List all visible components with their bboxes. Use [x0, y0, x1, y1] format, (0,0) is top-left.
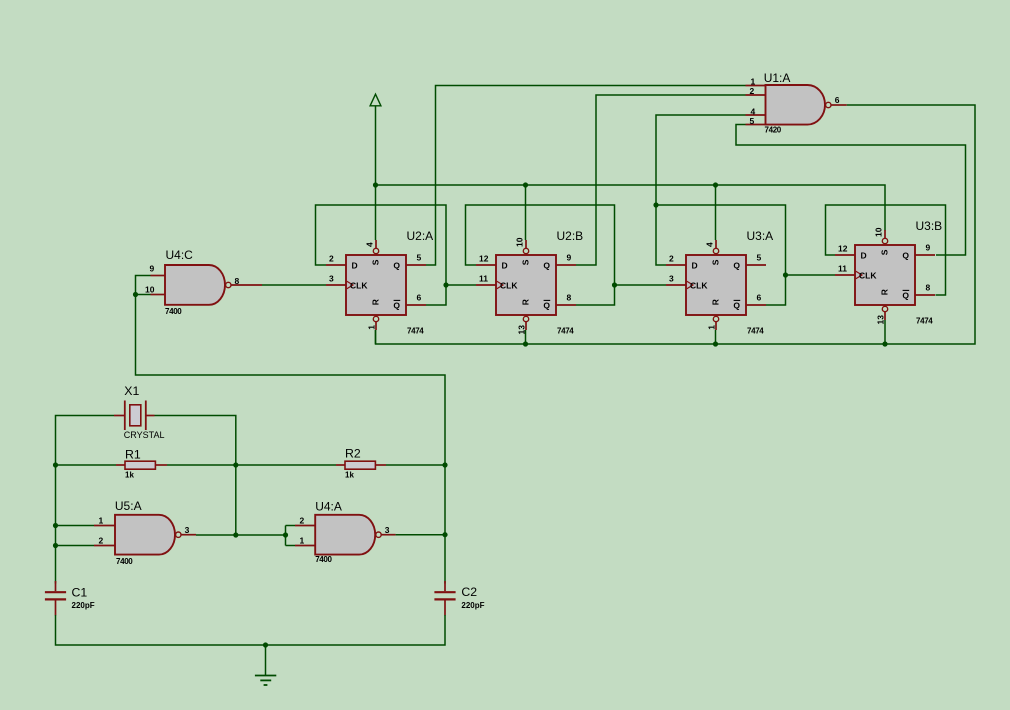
svg-text:7400: 7400: [165, 307, 182, 316]
wire U2:B R pin to reset bus: [525, 330, 527, 344]
svg-text:R: R: [520, 299, 530, 305]
U4:A pin 2 stub: [295, 525, 315, 527]
svg-text:7474: 7474: [916, 317, 933, 326]
svg-text:10: 10: [145, 285, 155, 295]
junction ground stem: [263, 642, 268, 647]
svg-text:R: R: [710, 299, 720, 305]
U1:A pin 2 stub: [746, 94, 766, 96]
wire Q U2:B up to U1:A pin 2: [576, 95, 746, 265]
U2:B Q pin stub: [556, 264, 576, 266]
op 4-input NAND U1:A body: [766, 85, 826, 125]
U2:A D pin stub: [326, 264, 346, 266]
U3:B D pin stub: [835, 254, 855, 256]
U2:A Qbar pin stub: [406, 304, 426, 306]
svg-text:1: 1: [751, 76, 756, 86]
svg-text:Q: Q: [393, 261, 400, 271]
svg-text:4: 4: [705, 242, 715, 247]
junction S bus at U2:A: [373, 182, 378, 187]
power terminal VCC arrow: [370, 94, 381, 106]
wire S preset bus: [376, 185, 886, 231]
svg-text:Q: Q: [902, 291, 909, 301]
svg-text:D: D: [502, 261, 508, 271]
wire osc net1 left rail (X1 left, R1 left, U5:A inputs, C1 top): [56, 416, 115, 584]
svg-text:1k: 1k: [345, 471, 354, 480]
wire D net U3:A up to U1:A pin 4: [656, 115, 746, 265]
svg-text:U5:A: U5:A: [115, 499, 142, 513]
svg-text:X1: X1: [124, 384, 139, 398]
wire osc net2 rail (X1 right, R1 right, U5:A out, U4:A in): [155, 416, 286, 536]
U2:A CLK pin stub: [326, 284, 346, 286]
svg-text:11: 11: [479, 273, 488, 283]
D flip-flop U2:A body: [346, 255, 406, 315]
wire U3:A R pin to reset bus: [715, 330, 717, 344]
U2:B CLK pin stub: [476, 284, 496, 286]
U2:B S preset circle: [523, 248, 528, 253]
wire U2:A R pin to reset bus: [375, 330, 377, 344]
svg-text:R: R: [370, 299, 380, 305]
svg-text:10: 10: [515, 237, 525, 247]
wire U3:B R pin to reset bus: [884, 320, 886, 344]
svg-text:D: D: [352, 261, 358, 271]
wire U4:A output to net3: [396, 534, 445, 536]
svg-text:6: 6: [757, 293, 762, 303]
svg-text:3: 3: [329, 273, 334, 283]
wire S bus drop to U3:A S pin: [715, 185, 717, 240]
svg-text:3: 3: [669, 273, 674, 283]
svg-text:U2:B: U2:B: [557, 229, 584, 243]
U5:A pin 1 stub: [94, 525, 115, 527]
R1 right pin stub: [155, 464, 167, 466]
svg-text:U3:B: U3:B: [916, 219, 943, 233]
C1 top pin stub: [55, 581, 57, 591]
svg-text:D: D: [861, 251, 867, 261]
svg-text:Q: Q: [902, 251, 909, 261]
wire loop Qbar U2:B to D U2:B: [466, 205, 615, 305]
svg-text:2: 2: [99, 536, 104, 546]
U4:C pin 8 output stub: [231, 284, 262, 286]
junction net2 at U5:A output: [233, 532, 238, 537]
svg-text:220pF: 220pF: [72, 601, 95, 610]
U2:A S preset circle: [373, 248, 378, 253]
svg-text:2: 2: [750, 86, 755, 96]
svg-text:R2: R2: [345, 447, 361, 461]
U3:A R pin stub: [715, 322, 717, 330]
svg-text:Q: Q: [393, 301, 400, 311]
U3:B R reset circle: [882, 306, 887, 311]
U3:A R reset circle: [713, 316, 718, 321]
svg-text:1: 1: [707, 325, 717, 330]
svg-text:U2:A: U2:A: [407, 229, 434, 243]
U4:A output bubble: [376, 532, 381, 537]
U1:A pin 1 stub: [746, 85, 766, 87]
svg-text:4: 4: [365, 242, 375, 247]
capacitor C1 body: [45, 592, 66, 599]
svg-text:1: 1: [367, 325, 377, 330]
svg-text:CLK: CLK: [500, 281, 518, 291]
wire U4:C output to U2:A CLK: [262, 284, 326, 286]
svg-text:7474: 7474: [747, 327, 764, 336]
2-input NAND U4:C body: [165, 265, 225, 305]
svg-text:8: 8: [926, 283, 931, 293]
U2:B Qbar pin stub: [556, 304, 576, 306]
U3:A S pin stub: [715, 240, 717, 248]
svg-text:8: 8: [235, 276, 240, 286]
resistor R2 body: [345, 461, 375, 469]
wire R1 right to net2: [167, 464, 236, 466]
svg-text:Q: Q: [733, 261, 740, 271]
svg-text:7420: 7420: [765, 126, 782, 135]
C1 bottom pin stub: [55, 601, 57, 616]
U1:A pin 5 stub: [746, 124, 766, 126]
svg-text:S: S: [879, 249, 889, 255]
C2 top pin stub: [444, 581, 446, 591]
resistor R1 body: [125, 461, 155, 469]
svg-text:7474: 7474: [557, 327, 574, 336]
junction reset bus at U3:B: [882, 341, 887, 346]
junction net1 at R1: [53, 462, 58, 467]
wire net2 to R2 left: [236, 464, 336, 466]
wire net1 to U5:A pin 1: [56, 525, 95, 527]
svg-text:C1: C1: [72, 586, 88, 600]
svg-text:12: 12: [838, 243, 848, 253]
junction reset bus at U3:A: [713, 341, 718, 346]
wire Qbar U3:A to U3:B CLK: [786, 274, 836, 276]
svg-text:C2: C2: [461, 585, 477, 599]
U4:C pin 10 stub: [151, 294, 166, 296]
U3:A CLK pin stub: [666, 284, 686, 286]
U3:A Q pin stub: [746, 264, 766, 266]
svg-text:9: 9: [567, 253, 572, 263]
junction D U3:A loop: [653, 202, 658, 207]
D flip-flop U3:B body: [855, 245, 915, 305]
U3:B S preset circle: [882, 238, 887, 243]
X1 left pin stub: [114, 415, 125, 417]
svg-text:S: S: [520, 259, 530, 265]
wire loop Qbar U2:A to D U2:A: [316, 205, 447, 305]
wire net1 to U5:A pin 2: [56, 545, 95, 547]
wire U5:A output to net2: [196, 534, 236, 536]
X1 right pin stub: [146, 415, 155, 417]
junction reset bus at U2:B: [523, 341, 528, 346]
U1:A pin 6 output stub: [831, 104, 847, 106]
svg-text:CLK: CLK: [690, 281, 708, 291]
U5:A output bubble: [176, 532, 181, 537]
junction net1 at U5:A pin1: [53, 523, 58, 528]
junction U4:A input tie: [283, 532, 288, 537]
junction net3 at R2: [442, 462, 447, 467]
U3:B S pin stub: [884, 230, 886, 238]
R2 right pin stub: [375, 464, 386, 466]
U3:B Qbar pin stub: [915, 294, 935, 296]
U4:C pin 9 stub: [151, 275, 166, 277]
U2:A S pin stub: [375, 240, 377, 248]
svg-text:2: 2: [300, 516, 305, 526]
svg-text:7400: 7400: [116, 557, 133, 566]
svg-text:U1:A: U1:A: [764, 71, 791, 85]
svg-text:D: D: [692, 261, 698, 271]
junction net3 at U4:A output: [442, 532, 447, 537]
R2 left pin stub: [336, 464, 345, 466]
svg-text:3: 3: [385, 525, 390, 535]
svg-text:7474: 7474: [407, 327, 424, 336]
svg-text:R: R: [879, 289, 889, 295]
wire U4:C tied inputs to oscillator output: [136, 276, 446, 466]
svg-text:CRYSTAL: CRYSTAL: [124, 430, 165, 440]
capacitor C2 body: [434, 592, 455, 599]
svg-text:5: 5: [757, 253, 762, 263]
svg-text:U4:A: U4:A: [315, 500, 342, 514]
U3:A D pin stub: [666, 264, 686, 266]
U3:A Qbar pin stub: [746, 304, 766, 306]
wire net1 to R1 left: [56, 464, 117, 466]
svg-text:5: 5: [750, 116, 755, 126]
junction U4:C input tie: [133, 292, 138, 297]
2-input NAND U4:A body: [315, 515, 375, 555]
U2:B R pin stub: [525, 322, 527, 330]
svg-text:U4:C: U4:C: [166, 248, 194, 262]
wire S bus drop to U2:A S pin: [375, 185, 377, 240]
svg-text:5: 5: [417, 253, 422, 263]
svg-text:3: 3: [185, 525, 190, 535]
U5:A pin 2 stub: [94, 545, 115, 547]
junction Qbar U3:A to next clock: [783, 272, 788, 277]
svg-text:Q: Q: [543, 261, 550, 271]
svg-text:10: 10: [874, 227, 884, 237]
svg-text:4: 4: [751, 107, 756, 117]
R1 left pin stub: [116, 464, 125, 466]
U3:B CLK pin stub: [835, 274, 855, 276]
U2:B S pin stub: [525, 240, 527, 248]
svg-text:Q: Q: [543, 301, 550, 311]
wire Qbar U2:A to U2:B CLK: [446, 284, 476, 286]
wire loop Qbar U3:A to D U3:A: [656, 205, 786, 305]
svg-text:9: 9: [150, 264, 155, 274]
wire VCC terminal to S bus: [375, 106, 377, 185]
U2:A Q pin stub: [406, 264, 426, 266]
svg-text:CLK: CLK: [859, 271, 877, 281]
wire S bus drop to U2:B S pin: [525, 185, 527, 240]
U2:A R pin stub: [375, 322, 377, 330]
U4:A pin 1 stub: [295, 545, 315, 547]
junction Qbar U2:A to next clock: [443, 282, 448, 287]
ground symbol: [255, 645, 276, 685]
U4:A pin 3 output stub: [381, 534, 395, 536]
junction S bus at U2:B: [523, 182, 528, 187]
U2:B D pin stub: [476, 264, 496, 266]
svg-text:R1: R1: [125, 448, 141, 462]
svg-text:Q: Q: [733, 301, 740, 311]
svg-text:6: 6: [417, 293, 422, 303]
U3:A S preset circle: [713, 248, 718, 253]
svg-text:12: 12: [479, 253, 489, 263]
crystal X1 body: [125, 401, 146, 431]
wire U4:C pin10 tie: [136, 294, 151, 296]
svg-text:2: 2: [329, 253, 334, 263]
2-input NAND U5:A body: [115, 515, 175, 555]
D flip-flop U3:A body: [686, 255, 746, 315]
junction net2 at R1 right: [233, 462, 238, 467]
junction S bus at U3:A: [713, 182, 718, 187]
U4:C output bubble: [226, 282, 231, 287]
wire Q of U3:B up to U1:A pin 5: [736, 125, 966, 256]
svg-text:11: 11: [838, 263, 847, 273]
svg-text:13: 13: [876, 315, 886, 325]
svg-text:1: 1: [99, 516, 104, 526]
svg-text:9: 9: [926, 243, 931, 253]
svg-text:1: 1: [300, 536, 305, 546]
U1:A output bubble: [826, 102, 831, 107]
D flip-flop U2:B body: [496, 255, 556, 315]
wire Q U2:A up to U1:A pin 1: [426, 86, 746, 266]
U3:B Q pin stub: [915, 254, 935, 256]
U4:A input tie wire: [285, 526, 287, 546]
wire R2 right to net3: [386, 464, 445, 466]
svg-text:1k: 1k: [125, 471, 134, 480]
svg-text:7400: 7400: [315, 555, 332, 564]
svg-text:S: S: [710, 259, 720, 265]
U1:A pin 4 stub: [746, 114, 766, 116]
U5:A pin 3 output stub: [181, 534, 196, 536]
junction Qbar U2:B to next clock: [612, 282, 617, 287]
svg-text:CLK: CLK: [350, 281, 368, 291]
U2:B R reset circle: [523, 316, 528, 321]
U2:A R reset circle: [373, 316, 378, 321]
wire Qbar U2:B to U3:A CLK: [615, 284, 667, 286]
wire tie to U4:A pin 2: [286, 525, 296, 527]
U3:B R pin stub: [884, 312, 886, 320]
wire ground bus (C1 bottom to C2 bottom): [56, 615, 446, 645]
svg-text:S: S: [370, 259, 380, 265]
svg-text:8: 8: [567, 293, 572, 303]
svg-text:6: 6: [835, 95, 840, 105]
svg-text:2: 2: [669, 253, 674, 263]
wire tie to U4:A pin 1: [286, 545, 296, 547]
wire loop Qbar U3:B to D U3:B: [826, 205, 946, 295]
wire U1:A output to reset bus (right side): [376, 105, 976, 344]
svg-text:U3:A: U3:A: [747, 229, 774, 243]
C2 bottom pin stub: [444, 601, 446, 616]
wire osc net3 rail (U4:C in, R2 right, U4:A out, C2 top): [444, 465, 446, 584]
svg-text:220pF: 220pF: [461, 601, 484, 610]
junction net1 at U5:A pin2: [53, 543, 58, 548]
